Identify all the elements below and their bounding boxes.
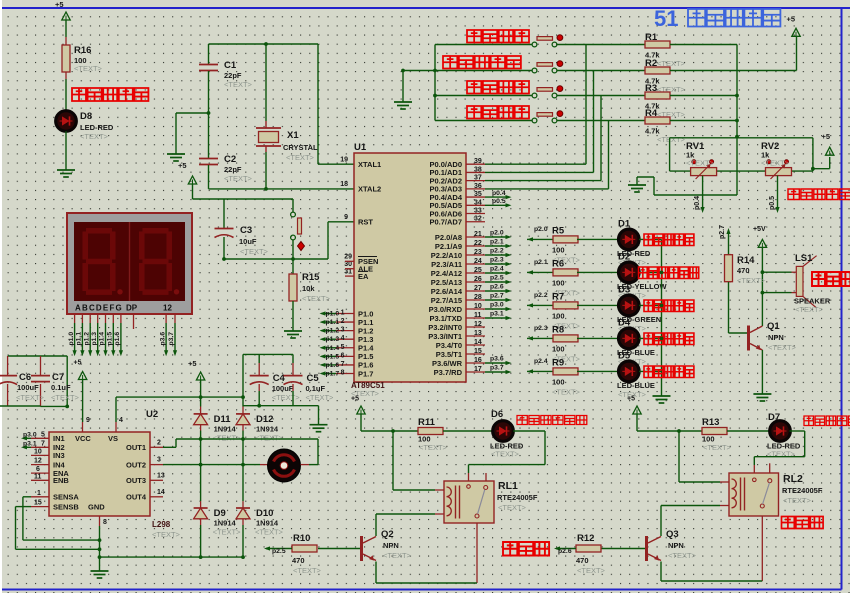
svg-text:D2: D2 xyxy=(618,251,630,262)
svg-text:D11: D11 xyxy=(214,414,232,425)
svg-text:LED-RED: LED-RED xyxy=(80,123,114,132)
svg-text:p2.5: p2.5 xyxy=(490,275,504,282)
svg-text:8: 8 xyxy=(341,369,345,376)
svg-text:12: 12 xyxy=(34,458,42,465)
svg-text:p1.3: p1.3 xyxy=(326,336,340,343)
svg-text:p3.7: p3.7 xyxy=(490,365,504,372)
svg-text:R13: R13 xyxy=(702,417,719,428)
svg-text:p1.3: p1.3 xyxy=(91,332,98,346)
svg-text:p2.1: p2.1 xyxy=(490,239,504,246)
svg-text:XTAL1: XTAL1 xyxy=(358,160,381,169)
svg-text:<TEXT>: <TEXT> xyxy=(419,443,448,452)
svg-text:p2.6: p2.6 xyxy=(558,548,572,555)
svg-text:1N914: 1N914 xyxy=(214,519,237,528)
svg-text:<TEXT>: <TEXT> xyxy=(224,80,253,89)
svg-text:<TEXT>: <TEXT> xyxy=(686,159,715,168)
svg-text:<TEXT>: <TEXT> xyxy=(272,393,301,402)
svg-text:C6: C6 xyxy=(19,372,31,383)
svg-text:p1.2: p1.2 xyxy=(326,328,340,335)
svg-text:36: 36 xyxy=(474,183,482,190)
svg-text:<TEXT>: <TEXT> xyxy=(293,566,322,575)
svg-text:100: 100 xyxy=(552,278,565,287)
svg-text:p1.1: p1.1 xyxy=(326,319,340,326)
svg-text:ENB: ENB xyxy=(53,476,69,485)
svg-text:D3: D3 xyxy=(618,284,630,295)
svg-text:<TEXT>: <TEXT> xyxy=(16,393,45,402)
svg-text:<TEXT>: <TEXT> xyxy=(74,64,103,73)
svg-text:<TEXT>: <TEXT> xyxy=(286,153,315,162)
svg-text:P2.5/A13: P2.5/A13 xyxy=(431,278,462,287)
svg-text:0.1uF: 0.1uF xyxy=(51,383,71,392)
svg-text:p1.5: p1.5 xyxy=(107,332,114,346)
svg-text:+5: +5 xyxy=(351,396,359,403)
svg-text:3: 3 xyxy=(157,457,161,464)
svg-text:0.1uF: 0.1uF xyxy=(306,384,326,393)
svg-text:<TEXT>: <TEXT> xyxy=(657,135,686,144)
svg-text:13: 13 xyxy=(157,472,165,479)
svg-text:4: 4 xyxy=(119,417,123,424)
svg-text:X1: X1 xyxy=(287,130,299,141)
svg-text:1: 1 xyxy=(37,490,41,497)
svg-text:+5: +5 xyxy=(627,396,635,403)
svg-text:GND: GND xyxy=(88,502,105,511)
svg-text:<TEXT>: <TEXT> xyxy=(498,503,527,512)
svg-text:P3.6/WR: P3.6/WR xyxy=(432,359,463,368)
svg-text:10k: 10k xyxy=(302,284,315,293)
svg-text:<TEXT>: <TEXT> xyxy=(255,434,284,443)
svg-text:2: 2 xyxy=(157,439,161,446)
svg-text:<TEXT>: <TEXT> xyxy=(795,305,824,314)
svg-text:<TEXT>: <TEXT> xyxy=(80,132,109,141)
svg-text:100: 100 xyxy=(552,344,565,353)
svg-text:<TEXT>: <TEXT> xyxy=(224,174,253,183)
svg-text:28: 28 xyxy=(474,294,482,301)
svg-text:P3.4/T0: P3.4/T0 xyxy=(436,341,462,350)
svg-text:P2.0/A8: P2.0/A8 xyxy=(435,233,462,242)
svg-text:5: 5 xyxy=(341,344,345,351)
svg-text:+5V: +5V xyxy=(753,226,766,233)
svg-text:100: 100 xyxy=(552,377,565,386)
svg-text:P1.7: P1.7 xyxy=(358,369,373,378)
svg-text:18: 18 xyxy=(340,181,348,188)
svg-text:16: 16 xyxy=(474,357,482,364)
svg-text:7: 7 xyxy=(341,361,345,368)
svg-text:29: 29 xyxy=(344,254,352,261)
svg-text:P3.1/TXD: P3.1/TXD xyxy=(429,314,462,323)
svg-text:<TEXT>: <TEXT> xyxy=(491,450,520,459)
svg-text:NPN: NPN xyxy=(668,541,684,550)
svg-text:p2.2: p2.2 xyxy=(490,248,504,255)
svg-text:<TEXT>: <TEXT> xyxy=(703,443,732,452)
svg-text:p2.0: p2.0 xyxy=(534,226,548,233)
svg-text:p1.6: p1.6 xyxy=(114,332,121,346)
svg-text:Q3: Q3 xyxy=(666,529,679,540)
svg-text:D4: D4 xyxy=(618,317,631,328)
svg-text:p3.0: p3.0 xyxy=(23,431,37,438)
svg-text:26: 26 xyxy=(474,276,482,283)
svg-text:<TEXT>: <TEXT> xyxy=(240,247,269,256)
svg-text:470: 470 xyxy=(737,266,750,275)
svg-text:R16: R16 xyxy=(74,45,91,56)
svg-text:+5: +5 xyxy=(188,359,197,368)
svg-text:P2.3/A11: P2.3/A11 xyxy=(431,260,462,269)
svg-text:p0.5: p0.5 xyxy=(492,198,506,205)
svg-text:VCC: VCC xyxy=(75,434,91,443)
svg-text:XTAL2: XTAL2 xyxy=(358,185,381,194)
svg-text:SENSB: SENSB xyxy=(53,502,79,511)
svg-text:+5: +5 xyxy=(178,161,187,170)
svg-text:34: 34 xyxy=(474,199,482,206)
svg-text:p0.4: p0.4 xyxy=(694,196,701,210)
svg-text:p2.4: p2.4 xyxy=(534,358,548,365)
svg-text:1N914: 1N914 xyxy=(256,519,279,528)
svg-text:NPN: NPN xyxy=(768,333,784,342)
svg-text:+5: +5 xyxy=(787,15,796,24)
svg-text:p1.6: p1.6 xyxy=(326,362,340,369)
svg-text:U1: U1 xyxy=(354,142,367,153)
svg-text:<TEXT>: <TEXT> xyxy=(51,393,80,402)
svg-text:P3.7/RD: P3.7/RD xyxy=(434,368,463,377)
svg-text:P3.0/RXD: P3.0/RXD xyxy=(429,305,463,314)
svg-text:D10: D10 xyxy=(256,508,273,519)
svg-text:IN3: IN3 xyxy=(53,451,65,460)
svg-text:p3.1: p3.1 xyxy=(23,440,37,447)
svg-text:R10: R10 xyxy=(293,533,310,544)
svg-text:<TEXT>: <TEXT> xyxy=(213,434,242,443)
svg-text:OUT3: OUT3 xyxy=(126,476,146,485)
svg-text:<TEXT>: <TEXT> xyxy=(152,530,181,539)
svg-text:22pF: 22pF xyxy=(224,71,242,80)
svg-text:LED-BLUE: LED-BLUE xyxy=(617,381,655,390)
svg-text:13: 13 xyxy=(474,330,482,337)
svg-text:<TEXT>: <TEXT> xyxy=(306,393,335,402)
svg-text:p2.6: p2.6 xyxy=(490,284,504,291)
svg-text:12: 12 xyxy=(474,321,482,328)
svg-text:VS: VS xyxy=(108,434,118,443)
svg-text:Q1: Q1 xyxy=(767,321,780,332)
svg-text:DP: DP xyxy=(126,304,138,313)
svg-text:22: 22 xyxy=(474,240,482,247)
svg-text:R5: R5 xyxy=(552,225,565,236)
svg-text:11: 11 xyxy=(474,312,482,319)
svg-text:RTE24005F: RTE24005F xyxy=(497,493,538,502)
svg-text:C3: C3 xyxy=(240,225,252,236)
svg-text:470: 470 xyxy=(292,556,305,565)
svg-text:37: 37 xyxy=(474,175,482,182)
svg-text:3: 3 xyxy=(341,327,345,334)
svg-text:D8: D8 xyxy=(80,111,92,122)
svg-text:39: 39 xyxy=(474,158,482,165)
svg-text:ABCDEFG: ABCDEFG xyxy=(75,304,123,313)
svg-text:C4: C4 xyxy=(273,373,286,384)
svg-text:<TEXT>: <TEXT> xyxy=(302,294,331,303)
svg-text:C2: C2 xyxy=(224,154,236,165)
svg-text:12: 12 xyxy=(163,304,172,313)
svg-text:<TEXT>: <TEXT> xyxy=(668,551,697,560)
svg-text:P2.4/A12: P2.4/A12 xyxy=(431,269,462,278)
svg-text:OUT1: OUT1 xyxy=(126,443,146,452)
svg-text:D12: D12 xyxy=(256,414,273,425)
svg-text:p2.0: p2.0 xyxy=(490,230,504,237)
svg-text:14: 14 xyxy=(474,339,482,346)
svg-text:OUT4: OUT4 xyxy=(126,493,147,502)
svg-text:R4: R4 xyxy=(645,108,658,119)
svg-text:<TEXT>: <TEXT> xyxy=(768,343,797,352)
svg-text:<TEXT>: <TEXT> xyxy=(213,528,242,537)
svg-text:2: 2 xyxy=(341,318,345,325)
svg-text:<TEXT>: <TEXT> xyxy=(761,159,790,168)
svg-text:p1.1: p1.1 xyxy=(76,332,83,346)
svg-text:p3.7: p3.7 xyxy=(168,332,175,346)
svg-text:D5: D5 xyxy=(618,350,631,361)
svg-text:P2.1/A9: P2.1/A9 xyxy=(435,242,462,251)
svg-text:R2: R2 xyxy=(645,58,657,69)
svg-text:100: 100 xyxy=(552,245,565,254)
svg-text:P3.3/INT1: P3.3/INT1 xyxy=(428,332,462,341)
svg-text:6: 6 xyxy=(36,466,40,473)
svg-text:p1.5: p1.5 xyxy=(326,353,340,360)
svg-text:CRYSTAL: CRYSTAL xyxy=(283,143,318,152)
svg-text:p2.7: p2.7 xyxy=(719,225,726,239)
svg-text:6: 6 xyxy=(341,352,345,359)
svg-text:p2.1: p2.1 xyxy=(534,259,548,266)
svg-text:14: 14 xyxy=(157,489,165,496)
svg-text:38: 38 xyxy=(474,166,482,173)
svg-text:P0.7/AD7: P0.7/AD7 xyxy=(429,218,462,227)
svg-text:R3: R3 xyxy=(645,83,657,94)
svg-text:8: 8 xyxy=(103,519,107,526)
svg-text:100uF: 100uF xyxy=(17,383,39,392)
svg-text:15: 15 xyxy=(34,500,42,507)
svg-text:32: 32 xyxy=(474,216,482,223)
svg-text:33: 33 xyxy=(474,208,482,215)
svg-text:1N914: 1N914 xyxy=(256,425,279,434)
svg-text:Q2: Q2 xyxy=(381,529,394,540)
svg-text:P3.2/INT0: P3.2/INT0 xyxy=(428,323,462,332)
svg-text:SENSA: SENSA xyxy=(53,493,79,502)
svg-text:p3.6: p3.6 xyxy=(159,332,166,346)
svg-text:P2.7/A15: P2.7/A15 xyxy=(431,296,462,305)
svg-text:15: 15 xyxy=(474,348,482,355)
svg-text:p3.6: p3.6 xyxy=(490,356,504,363)
svg-text:p1.7: p1.7 xyxy=(326,370,340,377)
svg-text:L298: L298 xyxy=(152,520,171,529)
svg-text:R15: R15 xyxy=(302,272,320,283)
svg-text:p3.1: p3.1 xyxy=(490,311,504,318)
svg-text:<TEXT>: <TEXT> xyxy=(577,566,606,575)
svg-text:9: 9 xyxy=(344,214,348,221)
svg-text:4: 4 xyxy=(341,335,345,342)
svg-text:p1.2: p1.2 xyxy=(83,332,90,346)
svg-text:11: 11 xyxy=(34,473,42,480)
svg-text:10: 10 xyxy=(34,448,42,455)
svg-text:C1: C1 xyxy=(224,60,237,71)
svg-text:RL2: RL2 xyxy=(783,473,803,485)
svg-text:23: 23 xyxy=(474,249,482,256)
svg-text:+5: +5 xyxy=(55,0,64,9)
svg-text:1N914: 1N914 xyxy=(214,425,237,434)
svg-text:D9: D9 xyxy=(214,508,226,519)
svg-text:p2.3: p2.3 xyxy=(490,257,504,264)
svg-text:51: 51 xyxy=(654,6,678,31)
svg-text:RTE24005F: RTE24005F xyxy=(782,486,823,495)
svg-text:p2.5: p2.5 xyxy=(272,548,286,555)
svg-text:P2.2/A10: P2.2/A10 xyxy=(431,251,462,260)
svg-text:25: 25 xyxy=(474,267,482,274)
svg-text:R8: R8 xyxy=(552,324,564,335)
svg-text:U2: U2 xyxy=(146,409,158,420)
svg-text:<TEXT>: <TEXT> xyxy=(552,387,581,396)
svg-text:+5: +5 xyxy=(74,360,82,367)
svg-text:10uF: 10uF xyxy=(239,237,257,246)
svg-text:p0.4: p0.4 xyxy=(492,190,506,197)
svg-text:RST: RST xyxy=(358,218,373,227)
svg-text:<TEXT>: <TEXT> xyxy=(383,551,412,560)
svg-text:C5: C5 xyxy=(307,373,320,384)
svg-text:P3.5/T1: P3.5/T1 xyxy=(436,350,462,359)
svg-text:p1.4: p1.4 xyxy=(99,332,106,346)
svg-text:p1.4: p1.4 xyxy=(326,345,340,352)
svg-text:24: 24 xyxy=(474,258,482,265)
svg-text:p2.7: p2.7 xyxy=(490,293,504,300)
svg-text:D6: D6 xyxy=(491,409,503,420)
svg-text:17: 17 xyxy=(474,366,482,373)
svg-text:p2.3: p2.3 xyxy=(534,325,548,332)
svg-text:22pF: 22pF xyxy=(224,165,242,174)
svg-text:R1: R1 xyxy=(645,32,658,43)
svg-text:35: 35 xyxy=(474,191,482,198)
svg-text:p1.0: p1.0 xyxy=(68,332,75,346)
svg-text:R6: R6 xyxy=(552,258,564,269)
svg-text:21: 21 xyxy=(474,231,482,238)
svg-text:100uF: 100uF xyxy=(272,384,294,393)
svg-text:5: 5 xyxy=(41,431,45,438)
svg-text:9: 9 xyxy=(86,417,90,424)
svg-text:D1: D1 xyxy=(618,218,631,229)
svg-text:D7: D7 xyxy=(768,412,780,423)
svg-text:27: 27 xyxy=(474,285,482,292)
svg-text:100: 100 xyxy=(552,311,565,320)
svg-text:C7: C7 xyxy=(52,372,64,383)
svg-text:P2.6/A14: P2.6/A14 xyxy=(431,287,463,296)
svg-text:R9: R9 xyxy=(552,357,564,368)
svg-text:<TEXT>: <TEXT> xyxy=(783,496,812,505)
svg-text:p2.2: p2.2 xyxy=(534,292,548,299)
svg-text:p3.0: p3.0 xyxy=(490,302,504,309)
svg-text:R14: R14 xyxy=(737,255,755,266)
svg-text:1: 1 xyxy=(341,310,345,317)
svg-text:p2.4: p2.4 xyxy=(490,266,504,273)
svg-text:470: 470 xyxy=(576,556,589,565)
svg-text:EA: EA xyxy=(358,272,369,281)
svg-text:+5: +5 xyxy=(822,132,831,141)
svg-text:10: 10 xyxy=(474,303,482,310)
svg-text:NPN: NPN xyxy=(383,541,399,550)
svg-text:LS1: LS1 xyxy=(795,253,813,264)
svg-text:19: 19 xyxy=(340,156,348,163)
svg-text:R12: R12 xyxy=(577,533,594,544)
svg-text:p0.5: p0.5 xyxy=(769,196,776,210)
svg-text:RL1: RL1 xyxy=(498,480,518,492)
svg-text:p1.0: p1.0 xyxy=(326,311,340,318)
svg-text:<TEXT>: <TEXT> xyxy=(255,528,284,537)
svg-text:<TEXT>: <TEXT> xyxy=(737,276,766,285)
svg-text:IN1: IN1 xyxy=(53,434,65,443)
svg-text:7: 7 xyxy=(41,440,45,447)
svg-text:R11: R11 xyxy=(418,417,436,428)
svg-text:OUT2: OUT2 xyxy=(126,460,146,469)
svg-text:R7: R7 xyxy=(552,291,564,302)
